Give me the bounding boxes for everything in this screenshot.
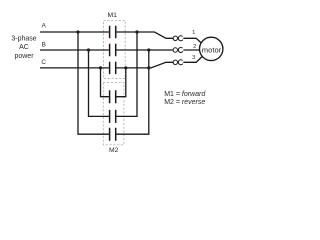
svg-text:C: C — [41, 59, 46, 66]
svg-text:M2: M2 — [109, 147, 119, 154]
svg-text:3-phase: 3-phase — [11, 35, 36, 42]
junction: A tap — [76, 30, 79, 33]
contact M1 pole C bars — [110, 62, 116, 74]
junction: M2 top output on line C — [124, 66, 127, 69]
svg-text:AC: AC — [19, 44, 29, 51]
svg-text:M2 = reverse: M2 = reverse — [164, 99, 205, 106]
svg-text:power: power — [14, 53, 34, 60]
wire: phase B after M1 to motor terminal 2 — [116, 49, 173, 51]
svg-text:1: 1 — [192, 30, 195, 36]
svg-text:3: 3 — [192, 55, 195, 61]
wire: phase A supply to M1 contact — [40, 31, 109, 33]
motor terminal 2 disconnect circles — [173, 47, 183, 52]
wire: phase C after M1 to motor terminal 3 — [116, 62, 173, 68]
wire: phase B tap down to M2 middle contact — [89, 50, 109, 116]
wire: phase B supply to M1 contact — [40, 49, 109, 51]
contactor M1 dashed enclosure — [104, 21, 126, 79]
wire: M2 top contact output up to line C — [116, 68, 126, 97]
wire: M2 bottom contact output up to line B — [116, 50, 149, 134]
wire: motor terminal 2 to motor — [183, 49, 199, 51]
wire: motor terminal 3 to motor — [183, 57, 202, 63]
svg-text:motor: motor — [202, 46, 222, 55]
motor terminal 3 disconnect circles — [173, 60, 183, 65]
svg-text:M1: M1 — [107, 12, 117, 19]
contactor M2 dashed enclosure — [103, 83, 124, 145]
contact M1 pole B bars — [110, 44, 116, 56]
wire: phase C supply to M1 contact — [40, 67, 109, 69]
svg-text:B: B — [42, 41, 46, 48]
svg-text:M1 = forward: M1 = forward — [164, 91, 206, 98]
contact M2 pole 3 bars — [110, 128, 116, 141]
junction: C tap — [99, 66, 102, 69]
wire: phase A tap down to M2 bottom contact — [78, 32, 109, 134]
junction: crossing blob on line C bend — [147, 66, 150, 69]
motor terminal 1 disconnect circles — [173, 36, 183, 41]
svg-text:2: 2 — [193, 44, 196, 50]
contact M1 pole A bars — [110, 26, 116, 38]
contact M2 pole 1 bars — [110, 90, 116, 103]
junction: M2 bottom output on line B — [147, 48, 150, 51]
wire: phase A after M1 to motor terminal 1 — [116, 32, 173, 38]
wire: motor terminal 1 to motor — [183, 38, 202, 43]
wire: M2 middle contact output up to line A — [116, 32, 137, 116]
wire: phase C tap down to M2 top contact — [101, 68, 109, 97]
motor M — [200, 37, 223, 60]
junction: M2 middle output on line A — [135, 30, 138, 33]
contact M2 pole 2 bars — [110, 110, 116, 123]
junction: B tap — [87, 48, 90, 51]
